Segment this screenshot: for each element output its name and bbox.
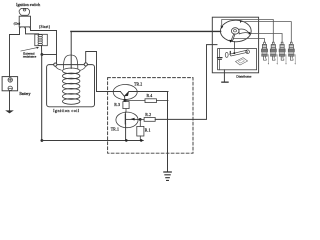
- coil HT tower arch: [63, 55, 77, 68]
- svg-text:(On): (On): [14, 21, 21, 25]
- node bus dot R1: [140, 139, 143, 142]
- wire R2 to breaker points: [155, 45, 217, 120]
- switch terminal Start: [29, 27, 31, 29]
- wire HT lead into coil: [70, 31, 72, 68]
- wire breaker to ground: [223, 70, 225, 82]
- coil lead from minus terminal: [80, 66, 86, 70]
- wire junction down to emitter bus: [41, 55, 43, 141]
- wire cap A to plug2: [222, 20, 274, 43]
- distributor cap: [220, 20, 251, 42]
- svg-text:R.4: R.4: [147, 94, 153, 98]
- wire battery to ground: [9, 91, 11, 111]
- wire HT main line to distributor: [71, 30, 221, 32]
- svg-text:resistance: resistance: [23, 55, 37, 59]
- wire cap C to plug3: [250, 34, 282, 43]
- node bus dot TR1: [125, 139, 128, 142]
- wire cap D to plug1: [232, 39, 265, 43]
- condenser C1: [219, 49, 221, 57]
- rotor: [231, 28, 239, 34]
- wire TR2 emitter to ground line: [129, 91, 168, 93]
- breaker inner box: [218, 49, 257, 70]
- node TR2 base dot: [124, 99, 127, 102]
- cap terminal C: [249, 32, 252, 35]
- distributor shaft: [233, 42, 235, 49]
- node junction dot: [41, 53, 44, 56]
- coil terminal plus: [54, 63, 57, 66]
- ground battery: [5, 110, 14, 113]
- ignition coil T1 case: [47, 65, 95, 107]
- spark plug 3: [279, 42, 287, 65]
- cap terminal B: [240, 20, 243, 23]
- svg-text:Distributor: Distributor: [236, 74, 252, 78]
- resistor R3: [124, 100, 126, 101]
- coil lead from plus terminal: [55, 66, 61, 70]
- switch terminal B: [19, 27, 21, 29]
- ignition switch S1 body: [19, 16, 30, 27]
- distributor outer box: [212, 17, 258, 73]
- spark plug 1: [262, 42, 270, 65]
- wire cap B to plug4: [241, 22, 291, 43]
- svg-text:R.2: R.2: [145, 113, 151, 117]
- breaker pivot: [246, 50, 250, 54]
- svg-text:TR.1: TR.1: [111, 127, 119, 131]
- spark plug 4: [288, 42, 296, 65]
- resistor R1: [139, 119, 141, 126]
- battery BT1: [2, 77, 18, 91]
- spark plug 2: [270, 42, 278, 65]
- cap terminal A: [220, 26, 223, 29]
- coil winding: [62, 68, 79, 104]
- external resistance R box: [35, 34, 48, 45]
- svg-text:Ignition switch: Ignition switch: [16, 2, 40, 7]
- rotor lower arm: [231, 34, 235, 41]
- resistor R2: [144, 118, 155, 122]
- wire resistance to junction: [41, 45, 43, 54]
- transistor TR2: [113, 85, 137, 100]
- svg-text:Battery: Battery: [19, 92, 30, 96]
- pointer arrow to resistance: [21, 48, 37, 51]
- wire coil minus jog to TR2: [86, 52, 97, 92]
- ignition switch S1 key head: [19, 8, 30, 15]
- svg-text:(Start): (Start): [39, 25, 51, 29]
- rotor arm: [239, 29, 249, 34]
- transistor TR1: [116, 112, 138, 128]
- resistor R4: [126, 100, 145, 102]
- coil terminal minus: [84, 63, 87, 66]
- igniter dashed box: [108, 78, 193, 154]
- ground distributor: [221, 82, 229, 83]
- breaker plate: [236, 58, 248, 65]
- wire ground vertical: [167, 92, 169, 172]
- ground igniter: [164, 172, 172, 180]
- svg-text:Ignition coil: Ignition coil: [53, 108, 80, 113]
- cam: [225, 52, 228, 57]
- svg-text:R.3: R.3: [114, 103, 120, 107]
- wire switch On to external resistance: [26, 28, 39, 35]
- svg-text:TR.2: TR.2: [134, 82, 142, 86]
- switch terminal On: [24, 27, 26, 29]
- breaker arm: [230, 50, 248, 56]
- node breaker wire dot: [233, 49, 235, 53]
- wire battery to switch: [10, 28, 20, 76]
- external resistance R element: [38, 34, 42, 45]
- node R2 junction dot: [139, 118, 142, 121]
- wire switch Start bypass: [31, 28, 57, 63]
- wire coil to TR2 collector: [97, 91, 121, 93]
- wire junction to coil plus: [42, 54, 57, 56]
- wire emitter bus: [42, 140, 143, 142]
- svg-text:R.1: R.1: [145, 129, 151, 133]
- node bus corner dot: [41, 139, 44, 142]
- cap terminal D: [229, 40, 232, 43]
